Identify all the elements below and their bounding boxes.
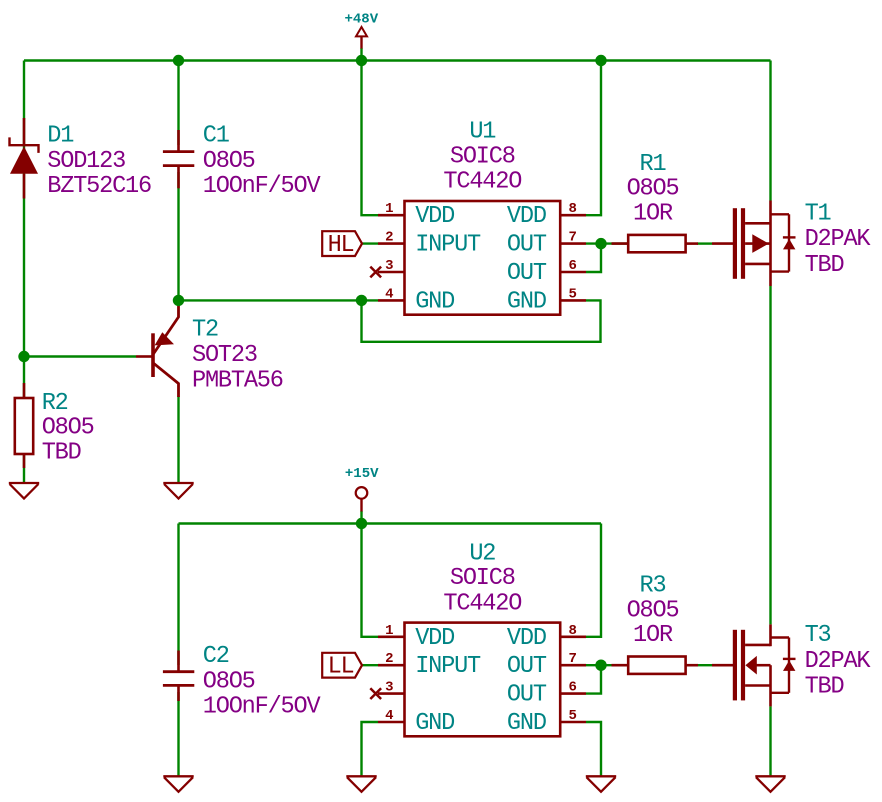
svg-text:OUT: OUT <box>507 260 547 287</box>
junction E <box>173 295 184 306</box>
svg-text:TC442O: TC442O <box>443 590 521 617</box>
ground (T2 collector) <box>163 483 193 499</box>
wire C1 branch upper <box>177 61 179 146</box>
svg-text:O8O5: O8O5 <box>627 176 679 203</box>
wire +48V top rail <box>24 59 771 61</box>
label R1 values <box>627 151 679 228</box>
ground (U2 pin5) <box>586 776 616 792</box>
junction C <box>595 55 606 66</box>
svg-text:GND: GND <box>507 288 546 315</box>
svg-text:7: 7 <box>569 230 577 246</box>
svg-text:1: 1 <box>385 201 393 217</box>
wire T2 collector to ground <box>177 396 179 482</box>
svg-text:C1: C1 <box>203 122 230 149</box>
diode D1 <box>10 118 39 199</box>
svg-text:GND: GND <box>415 710 454 737</box>
label R2 values <box>42 390 94 467</box>
wire +15V rail <box>179 522 602 524</box>
svg-text:1: 1 <box>385 623 393 639</box>
wire C1 branch lower <box>177 172 179 300</box>
svg-text:LL: LL <box>328 653 354 680</box>
svg-text:O8O5: O8O5 <box>203 668 255 695</box>
svg-text:D1: D1 <box>47 122 74 149</box>
svg-text:1OR: 1OR <box>633 201 673 228</box>
capacitor C1 <box>163 130 194 188</box>
wire C2 branch lower <box>177 692 179 776</box>
svg-text:T1: T1 <box>805 201 832 228</box>
svg-text:8: 8 <box>569 623 577 639</box>
svg-text:BZT52C16: BZT52C16 <box>47 173 151 200</box>
svg-text:O8O5: O8O5 <box>627 597 679 624</box>
svg-text:TBD: TBD <box>805 252 844 279</box>
svg-text:TBD: TBD <box>805 673 844 700</box>
svg-text:5: 5 <box>569 708 577 724</box>
wire R1 to T1 gate <box>697 242 712 244</box>
transistor T3 MOSFET <box>712 624 796 706</box>
wire U1 pin7 to R1 <box>586 242 628 244</box>
svg-text:SOIC8: SOIC8 <box>450 143 515 170</box>
wire left rail (D1 branch) <box>23 61 25 357</box>
wire U1 gnd loop pin4-pin5 <box>362 300 601 341</box>
junction D <box>18 351 29 362</box>
svg-text:1OOnF/5OV: 1OOnF/5OV <box>203 173 322 200</box>
label T3 values <box>805 622 872 700</box>
svg-text:7: 7 <box>569 651 577 667</box>
ground (C2) <box>163 776 193 792</box>
svg-text:R3: R3 <box>640 572 666 599</box>
wire HL to U1 pin2 <box>362 242 379 244</box>
wire U2 pin4 to ground <box>362 722 379 776</box>
wire T2 base <box>24 355 136 357</box>
svg-text:6: 6 <box>569 258 577 274</box>
resistor R3 <box>612 657 699 674</box>
wire T3 source to ground <box>769 706 771 775</box>
ground (U2 pin4) <box>346 776 376 792</box>
svg-text:VDD: VDD <box>415 203 454 230</box>
svg-text:INPUT: INPUT <box>415 232 481 259</box>
wire C2 branch upper <box>177 524 179 666</box>
svg-text:O8O5: O8O5 <box>42 415 94 442</box>
svg-text:2: 2 <box>385 651 393 667</box>
junction F <box>356 295 367 306</box>
svg-text:R1: R1 <box>640 151 667 178</box>
label D1 values <box>47 122 151 200</box>
ground (R2) <box>9 483 39 499</box>
wire U2 pin8 feed <box>586 524 601 637</box>
wire +48V stem <box>360 48 362 61</box>
junction B <box>356 55 367 66</box>
svg-text:VDD: VDD <box>507 625 546 652</box>
label C1 values <box>203 122 322 200</box>
svg-text:INPUT: INPUT <box>415 653 481 680</box>
svg-text:1OR: 1OR <box>633 622 673 649</box>
wire R2 branch <box>23 357 25 483</box>
junction A <box>173 55 184 66</box>
no-connect U1 pin3 <box>370 267 381 278</box>
wire U1 pin1 feed <box>362 61 379 216</box>
wire R3 to T3 gate <box>697 664 712 666</box>
wire U2 pin1 feed <box>362 524 379 637</box>
svg-text:TC442O: TC442O <box>443 168 521 195</box>
junction G <box>595 238 606 249</box>
label T2 values <box>192 317 283 395</box>
net label LL <box>322 653 362 681</box>
svg-text:PMBTA56: PMBTA56 <box>192 367 283 394</box>
svg-text:OUT: OUT <box>507 682 547 709</box>
svg-text:OUT: OUT <box>507 232 547 259</box>
wire U2 pin5 to ground <box>586 722 601 776</box>
ground (T3 source) <box>755 776 785 792</box>
svg-text:GND: GND <box>507 710 546 737</box>
svg-text:TBD: TBD <box>42 440 81 467</box>
wire U1 pin8 feed <box>586 61 601 216</box>
svg-text:D2PAK: D2PAK <box>805 648 872 675</box>
svg-text:8: 8 <box>569 201 577 217</box>
wire U1 pin6 jog <box>586 244 601 272</box>
svg-text:3: 3 <box>385 680 393 696</box>
junction H <box>356 518 367 529</box>
capacitor C2 <box>163 651 194 702</box>
svg-text:R2: R2 <box>42 390 68 417</box>
svg-text:D2PAK: D2PAK <box>805 226 872 253</box>
wire T1 source to T3 drain <box>769 286 771 624</box>
svg-text:HL: HL <box>328 232 354 259</box>
label U2 values <box>443 540 521 617</box>
label T1 values <box>805 201 872 279</box>
wire LL to U2 pin2 <box>362 664 379 666</box>
wire U1 pin4 net <box>179 299 379 301</box>
no-connect U2 pin3 <box>370 688 381 699</box>
svg-text:SOD123: SOD123 <box>47 148 125 175</box>
op-amp driver U1 SOIC8 TC4420 <box>378 201 586 315</box>
svg-text:6: 6 <box>569 680 577 696</box>
wire T1 drain <box>769 61 771 201</box>
label U1 values <box>443 118 521 195</box>
svg-text:OUT: OUT <box>507 653 547 680</box>
wire U2 pin6 jog <box>586 665 601 693</box>
wire +15V stem <box>360 511 362 524</box>
svg-text:+15V: +15V <box>345 466 379 482</box>
transistor Q T2 PNP <box>136 305 179 397</box>
net label HL <box>322 231 362 259</box>
svg-text:+48V: +48V <box>344 11 378 27</box>
svg-text:O8O5: O8O5 <box>203 148 255 175</box>
svg-text:5: 5 <box>569 286 577 302</box>
svg-text:VDD: VDD <box>507 203 546 230</box>
resistor R2 <box>15 383 33 468</box>
svg-text:VDD: VDD <box>415 625 454 652</box>
label R3 values <box>627 572 679 649</box>
svg-text:C2: C2 <box>203 643 229 670</box>
junction I <box>595 660 606 671</box>
label C2 values <box>203 643 322 720</box>
svg-text:4: 4 <box>385 708 393 724</box>
svg-text:T3: T3 <box>805 622 831 649</box>
op-amp driver U2 SOIC8 TC4420 <box>378 623 586 737</box>
svg-text:GND: GND <box>415 288 454 315</box>
svg-text:1OOnF/5OV: 1OOnF/5OV <box>203 694 322 721</box>
svg-text:U2: U2 <box>469 540 495 567</box>
svg-text:SOIC8: SOIC8 <box>450 565 515 592</box>
power +48V <box>344 11 378 48</box>
svg-text:SOT23: SOT23 <box>192 342 257 369</box>
wire U2 pin7 to R3 <box>586 664 628 666</box>
svg-text:4: 4 <box>385 286 393 302</box>
svg-text:2: 2 <box>385 230 393 246</box>
svg-text:T2: T2 <box>192 317 218 344</box>
svg-text:U1: U1 <box>469 118 496 145</box>
power +15V <box>345 466 379 512</box>
resistor R1 <box>612 235 699 252</box>
transistor T1 MOSFET <box>712 201 796 287</box>
svg-text:3: 3 <box>385 258 393 274</box>
